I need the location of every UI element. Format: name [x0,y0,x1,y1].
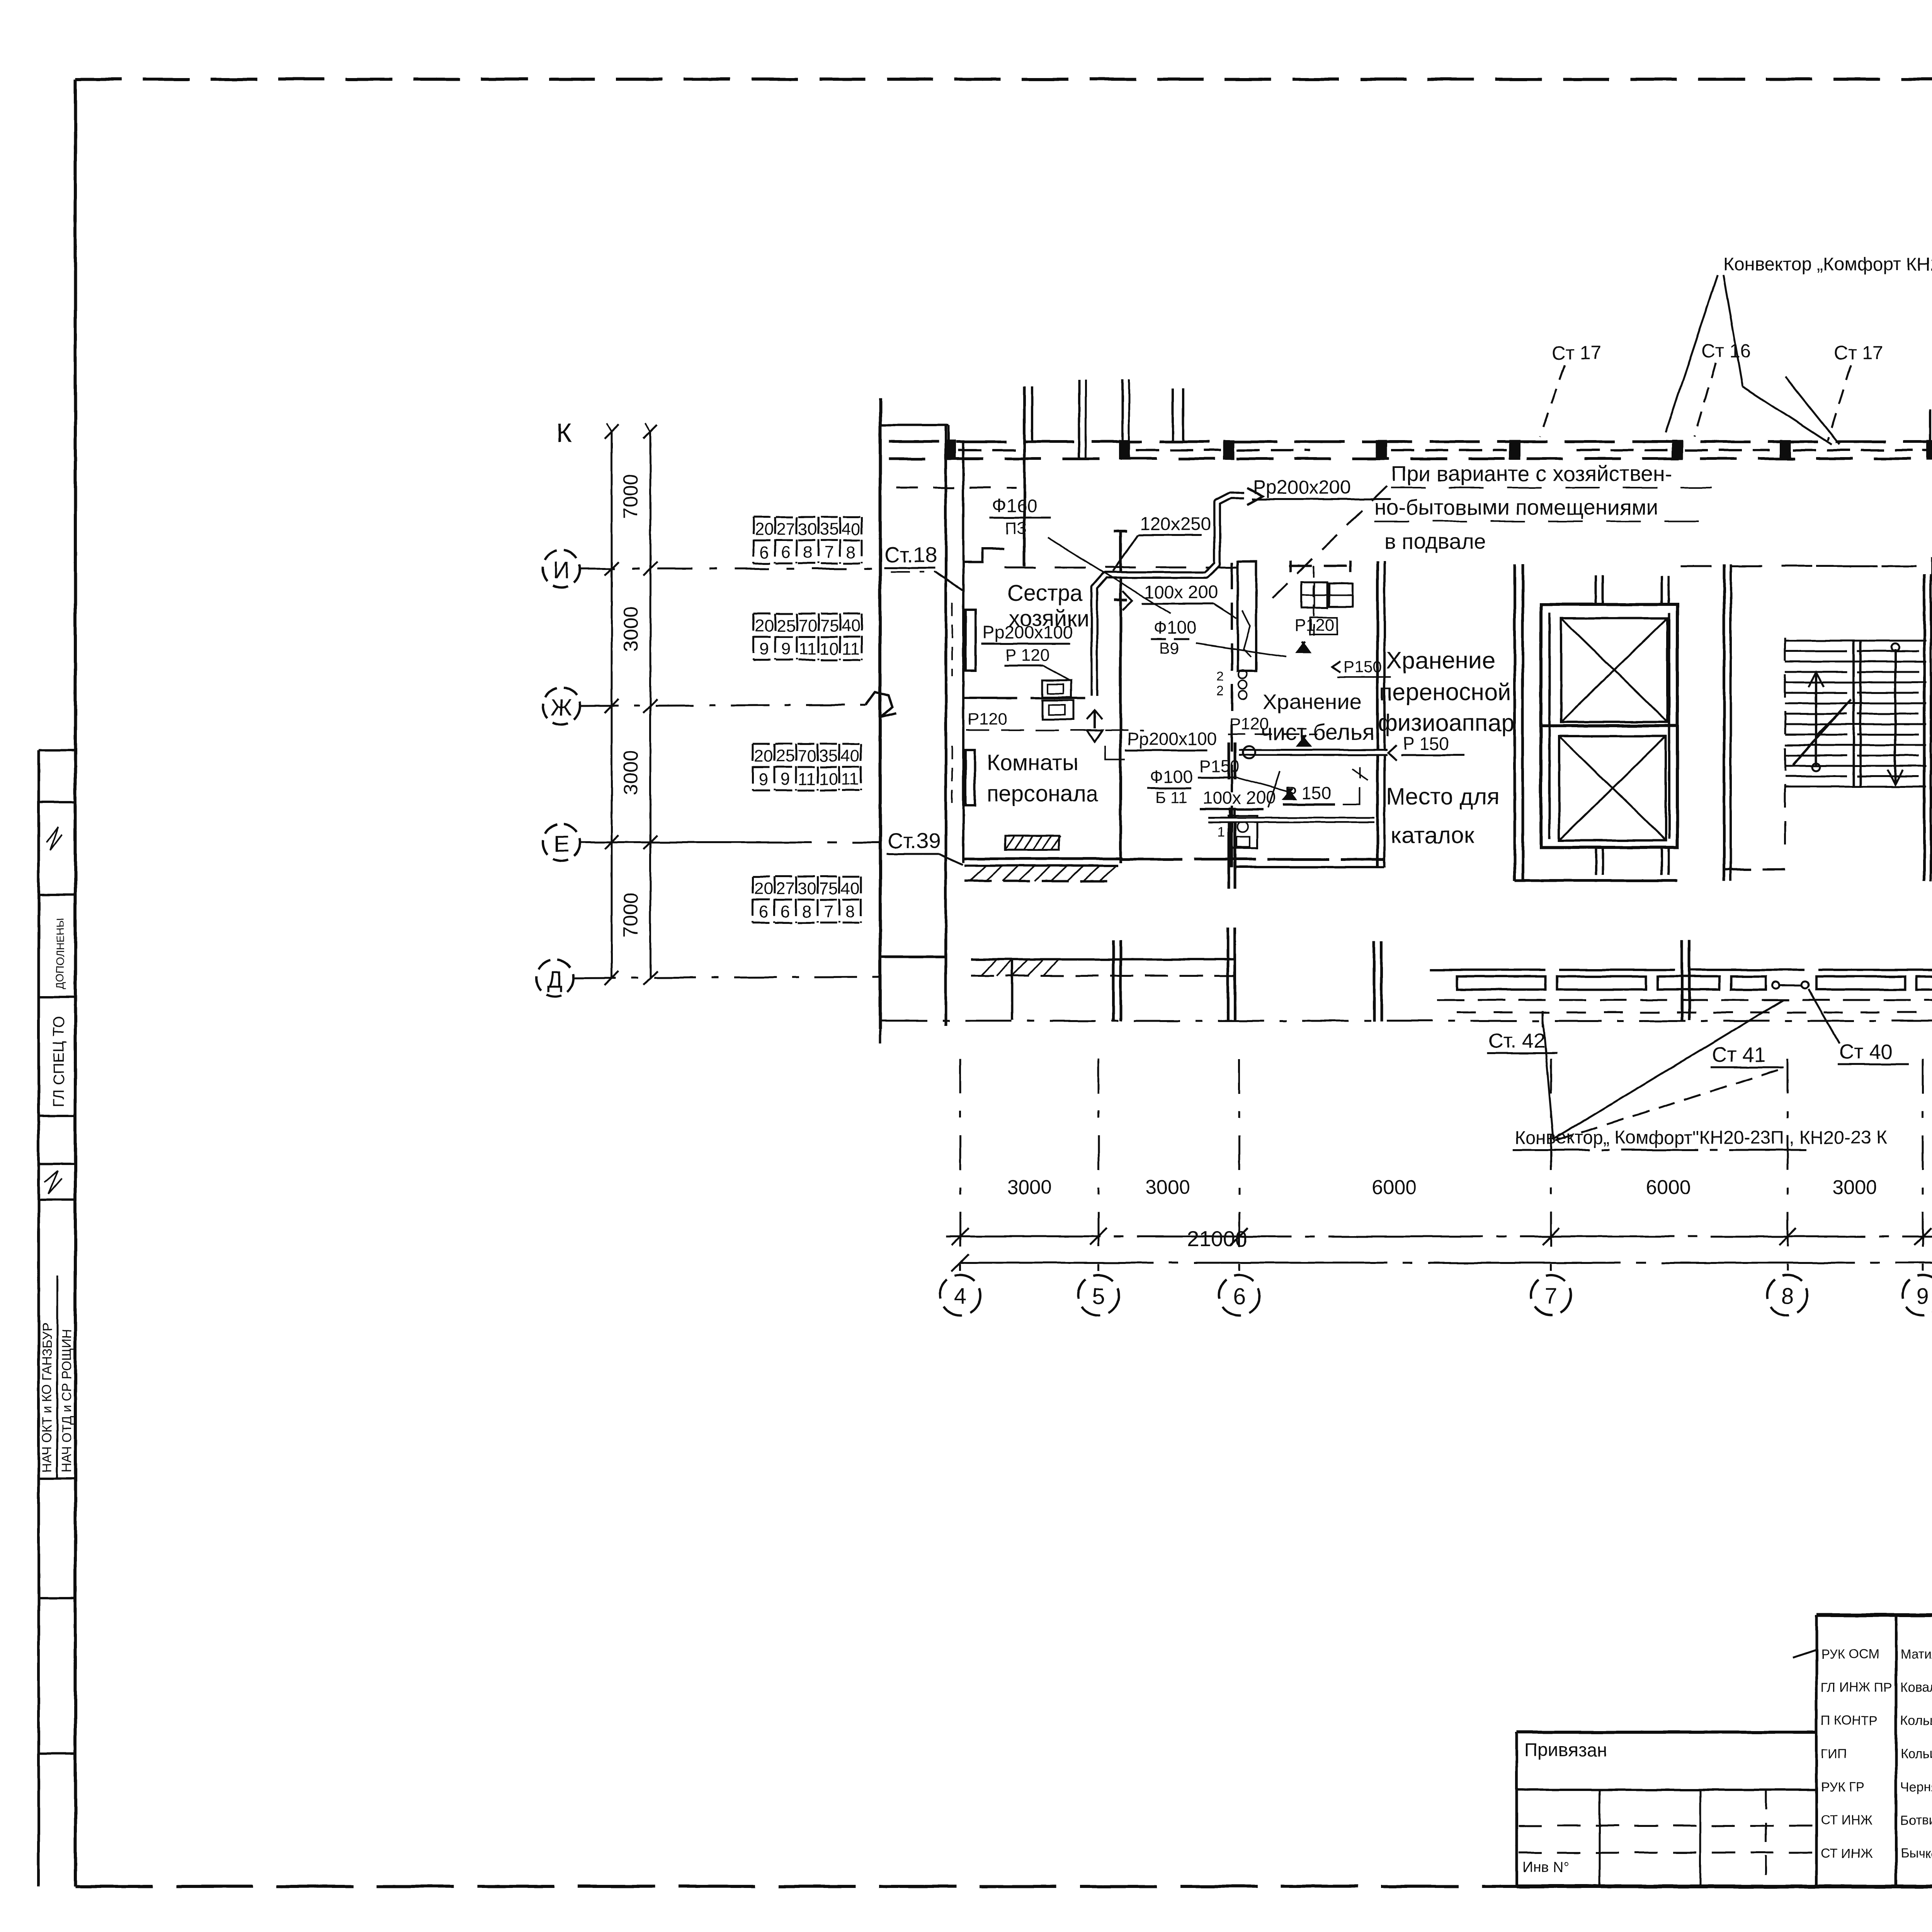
svg-text:8: 8 [846,543,855,562]
svg-text:Д: Д [547,966,563,992]
svg-text:Ф100: Ф100 [1153,617,1197,638]
svg-text:4: 4 [954,1284,966,1309]
stamp column dividers [39,749,75,752]
svg-text:6000: 6000 [1646,1176,1691,1199]
elevator cell 1 X [1561,618,1667,722]
svg-text:30: 30 [798,520,817,539]
svg-text:Хранение: Хранение [1263,689,1361,714]
svg-text:21000: 21000 [1187,1226,1247,1251]
axis circle E [543,824,580,861]
riser dots bottom [1772,982,1779,989]
axis I line [580,568,885,570]
exterior wall left [879,398,882,1029]
svg-text:75: 75 [820,616,839,635]
svg-text:И: И [553,557,570,583]
axis E line [580,842,881,844]
svg-text:переносной: переносной [1379,679,1511,706]
svg-text:ДОПОЛНЕНЫ: ДОПОЛНЕНЫ [54,918,66,989]
svg-text:75: 75 [819,879,838,898]
svg-text:10: 10 [819,770,838,789]
svg-text:Р 120: Р 120 [1005,646,1049,665]
svg-text:25: 25 [777,616,796,635]
svg-text:20: 20 [755,616,774,635]
column circles [940,1275,980,1315]
convector row rectangles [1457,976,1546,990]
sheet border top (dashed) [75,78,1932,81]
fan unit below [1232,816,1257,848]
svg-text:40: 40 [841,879,860,898]
lower-left rooms walls [881,956,946,958]
svg-text:В9: В9 [1159,639,1179,657]
svg-text:20: 20 [754,879,773,898]
svg-text:9: 9 [759,770,768,789]
svg-text:но-бытовыми помещениями: но-бытовыми помещениями [1374,495,1658,519]
svg-text:Р150: Р150 [1344,658,1382,676]
svg-text:Ф100: Ф100 [1150,767,1193,787]
exhaust duct horizontal [1239,749,1387,756]
svg-text:Р150: Р150 [1200,757,1240,776]
main supply duct L-shape [1094,495,1244,696]
svg-text:2: 2 [1216,684,1224,699]
svg-text:11: 11 [798,770,816,789]
svg-text:6: 6 [781,902,790,921]
stair top landing dashed wall [1816,565,1932,567]
svg-text:Ст 17: Ст 17 [1834,342,1884,364]
bottom label leaders fan [1543,1020,1553,1139]
load table 1 [753,517,755,563]
riser stub x2793 [1078,379,1080,457]
svg-text:10: 10 [820,639,839,658]
svg-text:3000: 3000 [1145,1176,1190,1199]
svg-text:Ст 16: Ст 16 [1701,340,1751,362]
svg-text:Привязан: Привязан [1524,1740,1607,1760]
corridor south wall [1121,858,1384,861]
title block outline verticals [1815,1615,1818,1886]
svg-text:35: 35 [819,747,838,765]
svg-text:К: К [556,418,572,448]
svg-text:Комнаты: Комнаты [987,750,1078,775]
sheet border left [74,79,77,1886]
porch line top-left [880,424,949,426]
svg-text:НАЧ ОТД и СР РОЩИН: НАЧ ОТД и СР РОЩИН [60,1329,74,1472]
load table 4 [752,876,754,923]
svg-text:Хранение: Хранение [1386,647,1495,674]
top label leaders [1665,275,1718,433]
lower dash-dot line y2640 [881,1020,1932,1022]
svg-text:РУК ОСМ: РУК ОСМ [1821,1647,1879,1662]
svg-text:Ст. 42: Ст. 42 [1488,1029,1545,1053]
svg-text:НАЧ ОКТ и КО ГАНЗБУР: НАЧ ОКТ и КО ГАНЗБУР [40,1323,54,1472]
svg-text:Рр200х100: Рр200х100 [1127,729,1217,749]
top-left entry box [963,549,1005,583]
fixture double boxes on wall [1043,680,1071,697]
arrow and label P150 duct end [1388,745,1396,760]
left wall bottom tick [879,1029,881,1043]
dimension line row1 [946,1236,1932,1238]
upper room partition dashed [1289,565,1352,567]
svg-text:П КОНТР: П КОНТР [1821,1713,1878,1728]
riser stub x2905 [1121,379,1124,442]
svg-text:6: 6 [759,902,768,921]
svg-text:7000: 7000 [620,893,642,937]
svg-text:персонала: персонала [987,781,1099,806]
svg-text:11: 11 [799,639,816,658]
svg-text:3000: 3000 [1007,1176,1052,1199]
svg-text:ГИП: ГИП [1821,1747,1847,1761]
svg-text:70: 70 [798,616,817,635]
south wall band left wing hatch [964,864,1118,867]
load table 2 [753,614,755,660]
stair diagonal slash [1793,699,1851,765]
svg-text:5: 5 [1092,1284,1105,1309]
stair arrows [1815,672,1817,765]
svg-text:Рр200х100: Рр200х100 [983,622,1073,642]
svg-text:Ст 41: Ст 41 [1712,1043,1765,1066]
svg-text:Р 150: Р 150 [1285,783,1331,803]
svg-text:Ст.18: Ст.18 [884,543,937,567]
svg-text:100х 200: 100х 200 [1202,787,1276,808]
svg-text:ГЛ СПЕЦ ТО: ГЛ СПЕЦ ТО [50,1016,67,1107]
wall right of elevators [1723,564,1726,881]
svg-text:чист белья: чист белья [1261,720,1374,745]
svg-text:6000: 6000 [1372,1176,1417,1199]
svg-text:30: 30 [798,879,816,898]
svg-text:40: 40 [842,520,861,539]
riser circles [1238,670,1247,679]
svg-text:25: 25 [776,747,795,765]
stair flight separators [1852,641,1855,787]
stair room hatch [1785,640,1926,642]
window band y2480-2525 left [971,958,1236,961]
south wall band right solid [1430,969,1932,971]
svg-text:Место для: Место для [1386,784,1499,810]
svg-text:8: 8 [802,902,811,921]
svg-text:Кольцова: Кольцова [1900,1713,1932,1728]
svg-text:каталок: каталок [1391,822,1475,848]
duct outlet arrow Pp200x200 [1247,488,1263,505]
svg-text:Ф160: Ф160 [992,496,1037,516]
stub x2620 south [1011,959,1014,1020]
risers above top wall [1023,386,1026,566]
left dim line 1 [611,432,613,979]
svg-text:Рр200х200: Рр200х200 [1253,476,1351,498]
svg-text:8: 8 [1781,1284,1794,1309]
axis circle I [543,550,580,587]
stamp column outer line [37,750,40,1886]
svg-text:Черняева: Черняева [1900,1780,1932,1794]
corridor wall room1 [963,697,1088,699]
top wall window sill dashes [896,487,1016,489]
radiator 1 [966,610,976,671]
svg-text:СТ ИНЖ: СТ ИНЖ [1821,1846,1872,1861]
svg-text:3000: 3000 [620,750,642,795]
leader into title [1793,1650,1816,1658]
column axis verticals [959,1059,961,1273]
svg-text:6: 6 [1233,1284,1245,1309]
svg-text:20: 20 [755,520,774,539]
svg-text:в подвале: в подвале [1384,529,1486,553]
svg-text:Б 11: Б 11 [1155,788,1187,806]
svg-text:Е: Е [554,831,569,857]
svg-text:40: 40 [841,747,860,765]
svg-text:Ст 17: Ст 17 [1552,342,1602,364]
svg-text:3000: 3000 [620,607,642,651]
svg-text:120х250: 120х250 [1140,514,1211,534]
elevator shaft block [1541,604,1677,847]
note leader dashed [1268,486,1387,603]
top exterior wall band [889,440,1932,443]
pier x2890 [1112,940,1115,1021]
svg-text:7000: 7000 [620,474,642,519]
svg-text:Ковальский: Ковальский [1900,1680,1932,1695]
svg-text:6: 6 [781,543,791,562]
svg-text:7: 7 [824,902,833,921]
svg-text:Бычкова: Бычкова [1900,1846,1932,1861]
top wall piers [946,441,955,459]
fixture boxes with cross [1302,582,1327,608]
title block top line [1816,1613,1932,1617]
elevator cell 2 X [1559,736,1666,840]
svg-text:9: 9 [1917,1284,1929,1309]
room persons south wall [963,857,1122,860]
svg-text:35: 35 [820,520,839,539]
svg-text:Конвектор„ Комфорт"КН20-23П ,: Конвектор„ Комфорт"КН20-23П , КН20-23 К [1515,1128,1887,1148]
dim ticks [605,562,619,576]
duct stub x3040 above wall [1172,388,1174,442]
svg-text:8: 8 [803,543,812,562]
svg-text:Сестра: Сестра [1007,581,1083,606]
load table 3 [752,744,754,790]
svg-text:9: 9 [781,639,791,658]
sheet border bottom [75,1885,1517,1888]
duct to mesto dlya [1208,817,1374,823]
interior wall x3188 dashed vertical [1231,562,1233,867]
svg-text:3000: 3000 [1832,1176,1877,1199]
svg-text:11: 11 [841,770,859,789]
svg-text:7: 7 [825,543,834,562]
radiator 2 [966,750,975,805]
svg-text:27: 27 [777,520,796,539]
svg-text:6: 6 [760,543,769,562]
svg-text:Ботвина: Ботвина [1900,1813,1932,1828]
corridor wall under elevators [1515,879,1677,882]
svg-text:70: 70 [798,747,816,765]
stair left dashed wall [1784,638,1786,850]
svg-text:Конвектор „Комфорт КН20-2 ЛП: Конвектор „Комфорт КН20-2 ЛП КН20-2пк [1723,254,1932,275]
svg-text:Матилин: Матилин [1900,1647,1932,1662]
riser shaft rect [1238,561,1256,671]
axis circle Zh [543,687,580,724]
svg-text:100х 200: 100х 200 [1145,582,1218,602]
interior wall x3570 [1376,561,1379,867]
axis D line [573,977,881,978]
svg-text:7: 7 [1545,1284,1557,1309]
svg-text:СТ ИНЖ: СТ ИНЖ [1821,1813,1872,1828]
stamp signature squiggles [46,827,62,850]
svg-text:11: 11 [842,639,860,658]
arrow down P150 [1284,788,1295,799]
svg-text:физиоаппар: физиоаппар [1378,710,1515,736]
pier x3186 [1227,927,1230,1021]
svg-text:Инв N°: Инв N° [1522,1859,1570,1876]
svg-text:8: 8 [845,902,855,921]
svg-text:ПЗ: ПЗ [1005,519,1027,538]
left dim line 2 [650,432,651,979]
svg-text:ГЛ ИНЖ ПР: ГЛ ИНЖ ПР [1821,1680,1892,1695]
svg-text:При варианте с хозяйствен-: При варианте с хозяйствен- [1391,461,1672,486]
elevator stubs [1595,576,1597,604]
window dashes south right [1437,999,1932,1001]
axis Zh line [580,705,866,706]
svg-text:9: 9 [760,639,769,658]
svg-text:Р120: Р120 [968,710,1007,729]
axis Zh break squiggle [866,692,896,717]
svg-text:20: 20 [754,747,773,765]
interior wall x3930 double [1514,564,1516,881]
small arrow right fixture [1122,591,1132,611]
svg-text:27: 27 [776,879,795,898]
svg-text:РУК ГР: РУК ГР [1821,1780,1865,1794]
south piers right [1373,942,1376,1022]
axis circle D [536,959,573,997]
svg-text:Ст 40: Ст 40 [1839,1040,1893,1063]
svg-text:9: 9 [781,770,790,789]
svg-text:40: 40 [842,616,861,635]
privyazan box [1517,1731,1816,1734]
svg-text:Кольцова: Кольцова [1900,1747,1932,1761]
svg-text:Ст.39: Ст.39 [888,828,941,853]
up arrow diffuser [1094,710,1096,728]
stair right wall [1923,575,1926,881]
svg-text:Ж: Ж [551,694,572,720]
hatched convector room personala [1005,836,1059,850]
svg-text:1: 1 [1217,824,1225,840]
interior wall x2900 vertical [1119,531,1122,863]
svg-text:2: 2 [1216,669,1224,684]
